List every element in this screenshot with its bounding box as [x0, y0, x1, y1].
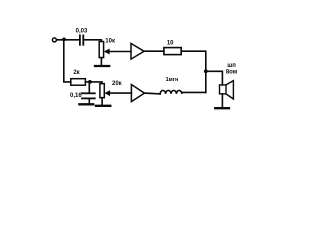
wire J3 down to capacitor C2: [88, 82, 90, 93]
wire J1 down to R 2k: [64, 40, 71, 82]
svg-text:10: 10: [167, 40, 174, 46]
C2 ground stub: [88, 99, 90, 103]
svg-text:1мгн: 1мгн: [166, 77, 179, 83]
svg-text:0,03: 0,03: [76, 29, 88, 35]
wiper arrow of R1: [106, 51, 131, 53]
wire input to capacitor: [57, 39, 79, 41]
speaker ground stub: [221, 94, 223, 107]
resistor R2 10: [164, 48, 181, 55]
ground stub under R1: [100, 58, 102, 65]
node J2: [204, 69, 208, 73]
potentiometer R1 10k body: [99, 42, 103, 58]
op-amp A2: [131, 85, 144, 102]
inductor L1 1mgn: [160, 90, 206, 93]
speaker cone: [226, 81, 233, 99]
svg-text:10к: 10к: [105, 39, 115, 45]
wiper arrow of R4: [107, 92, 132, 94]
R4 ground stub: [101, 98, 103, 105]
svg-text:0,16: 0,16: [70, 93, 82, 99]
wire A2 output to inductor: [144, 92, 160, 95]
wire J2 to speaker: [206, 71, 223, 85]
potentiometer R4 20k body: [100, 84, 104, 98]
resistor R3 2k: [71, 79, 86, 86]
wire capacitor to potentiometer top: [84, 40, 101, 42]
node J3: [88, 80, 92, 84]
capacitor C2 0,16: [82, 93, 95, 98]
wire R3 to pot R4 top: [85, 82, 102, 84]
speaker ground bar: [215, 107, 229, 109]
ground bar under R1: [95, 65, 109, 67]
R4 ground bar: [96, 105, 110, 107]
C2 ground bar: [79, 103, 93, 105]
speaker body: [220, 85, 227, 94]
svg-text:20к: 20к: [112, 81, 122, 87]
input terminal: [52, 38, 56, 42]
wire R2 to right rail down to inductor: [181, 51, 206, 92]
op-amp A1: [131, 43, 144, 59]
node J1: [62, 38, 66, 42]
wire A1 output to resistor 10: [144, 50, 164, 52]
svg-text:8ом: 8ом: [226, 70, 238, 76]
capacitor C1 0,03: [80, 35, 83, 44]
svg-text:2к: 2к: [73, 70, 79, 76]
svg-text:шп: шп: [227, 63, 236, 69]
